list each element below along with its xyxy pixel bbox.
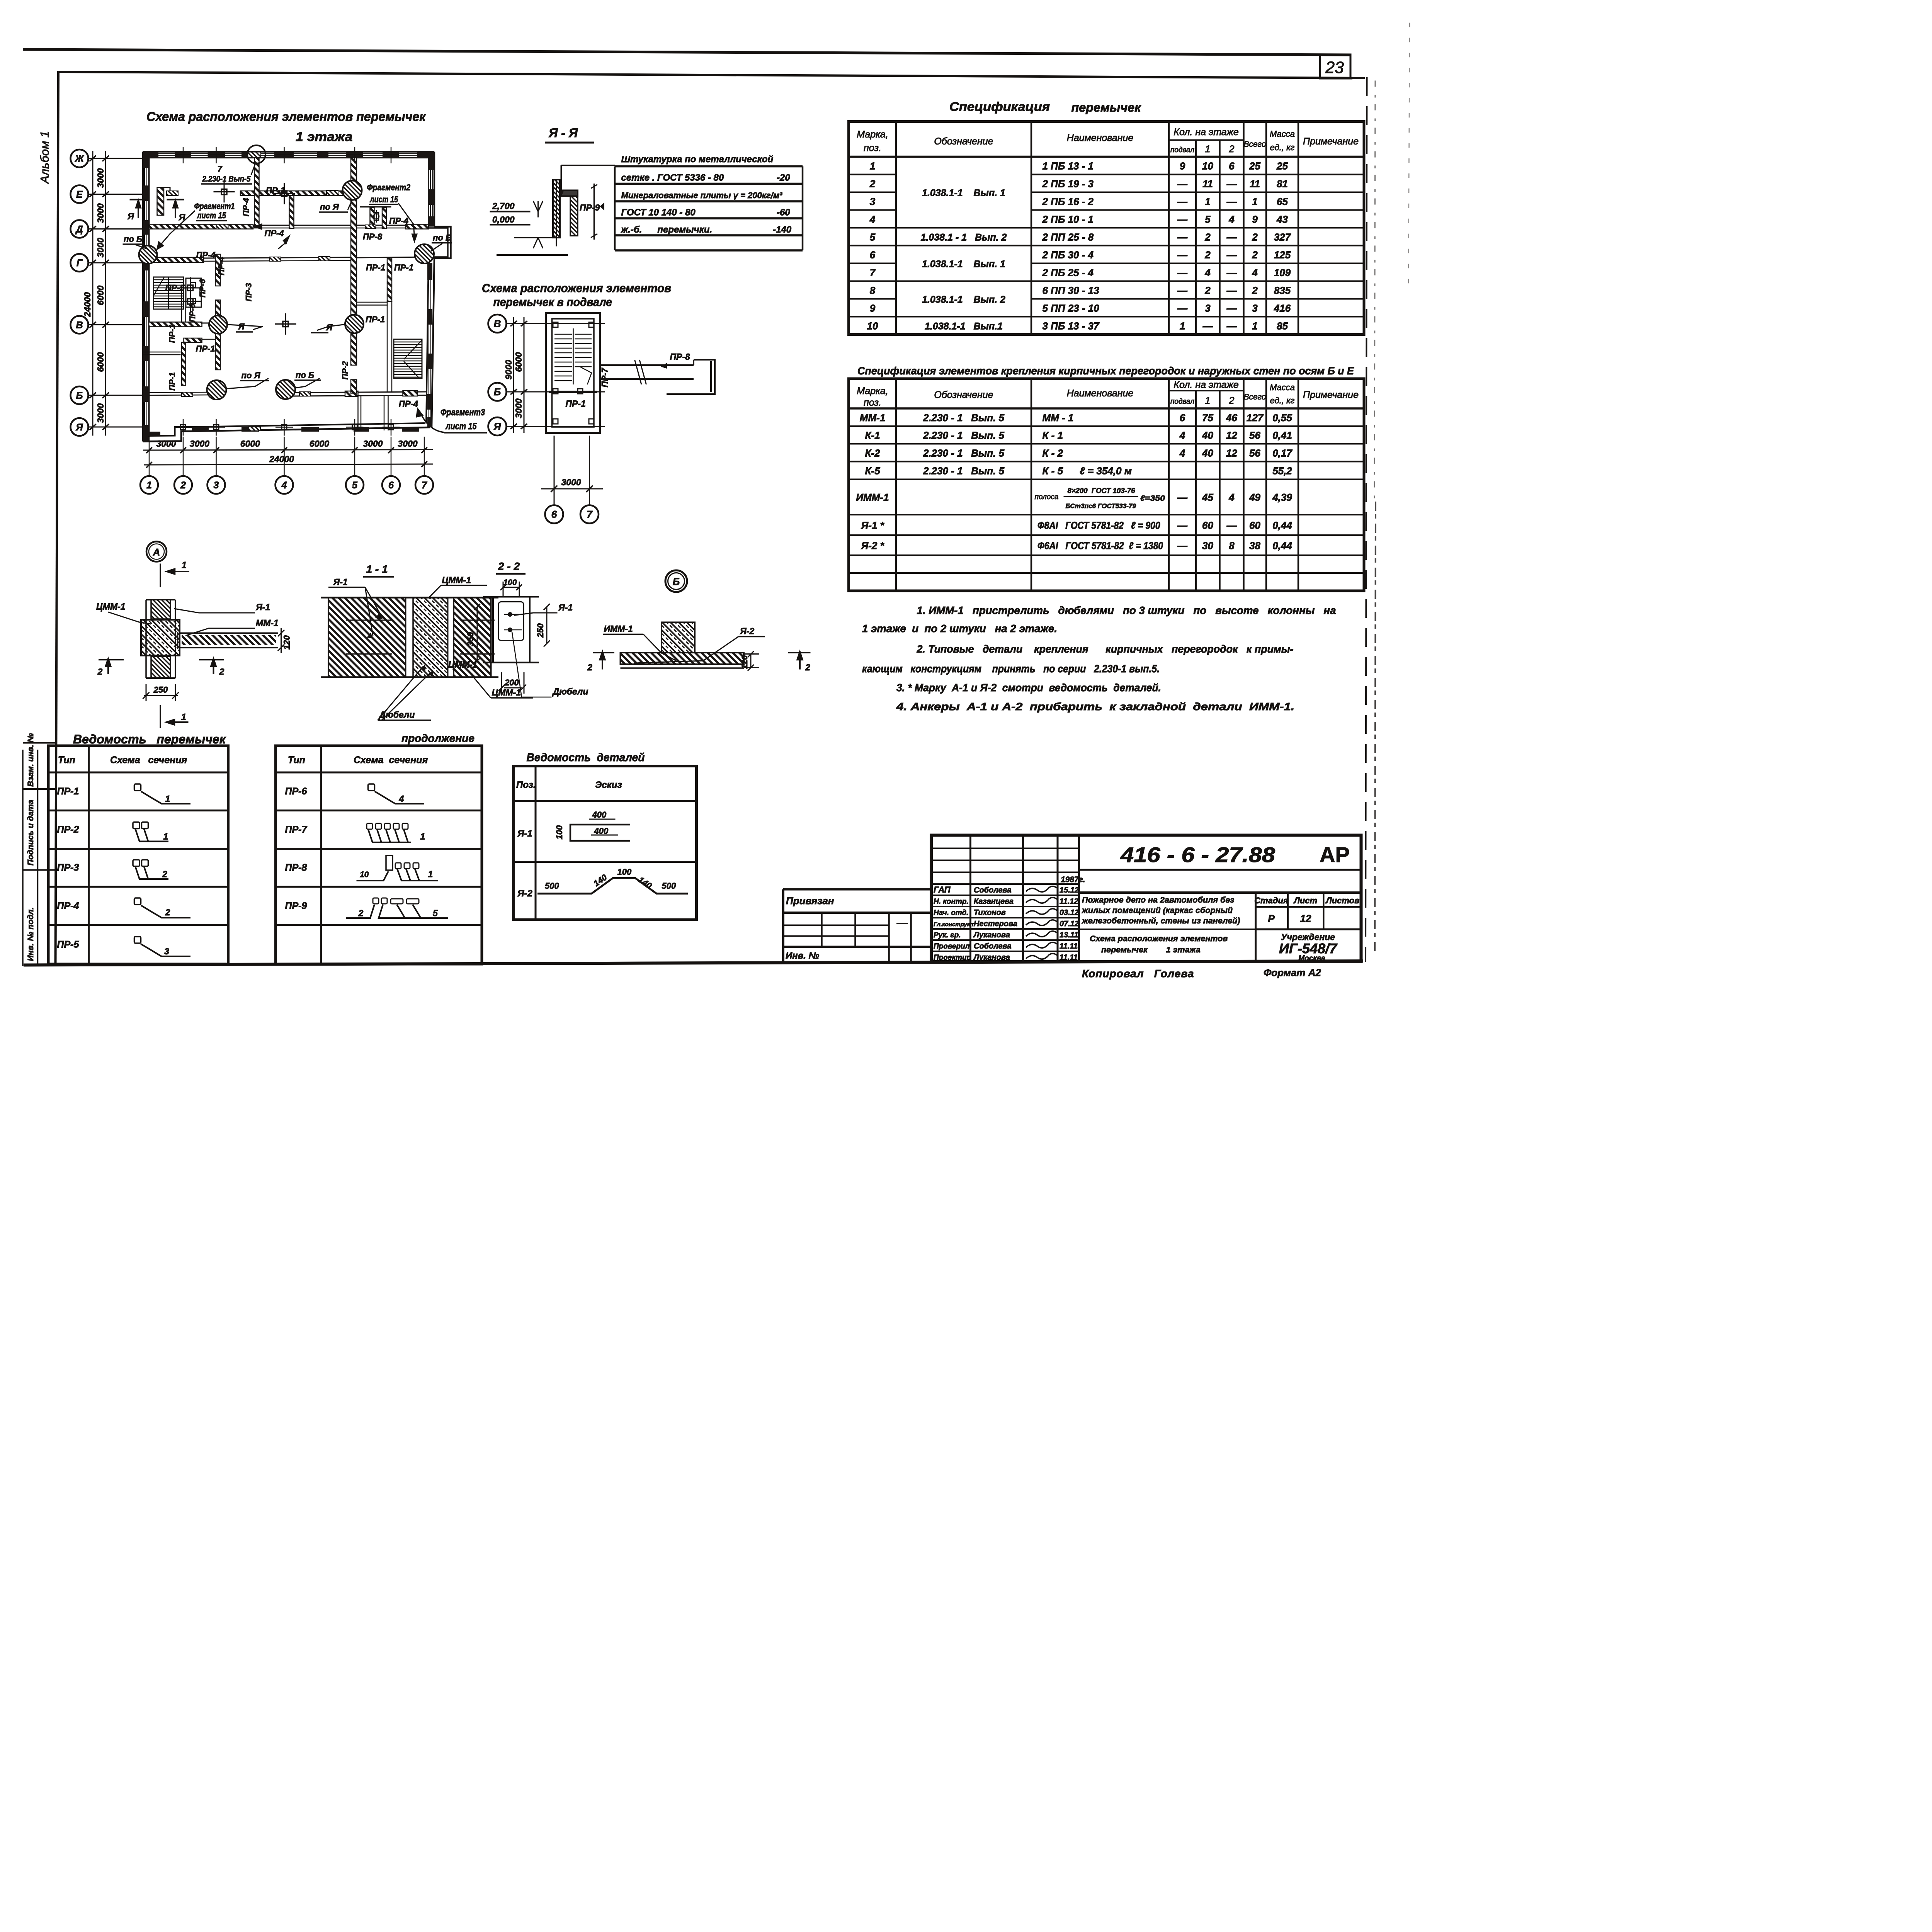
svg-text:-140: -140 bbox=[773, 224, 792, 235]
svg-text:6 ПП 30 - 13: 6 ПП 30 - 13 bbox=[1043, 285, 1100, 296]
svg-text:4,39: 4,39 bbox=[1272, 492, 1292, 503]
stage/sheet cells bbox=[1254, 896, 1359, 963]
svg-text:0,000: 0,000 bbox=[492, 214, 515, 224]
svg-text:3: 3 bbox=[1252, 303, 1258, 314]
wall V2 bbox=[289, 196, 294, 228]
svg-text:4: 4 bbox=[1228, 214, 1235, 225]
svg-text:—: — bbox=[1177, 540, 1188, 551]
spec table 1 rows bbox=[867, 160, 1291, 332]
svg-text:0,17: 0,17 bbox=[1272, 447, 1293, 459]
svg-text:2 ПБ 30 - 4: 2 ПБ 30 - 4 bbox=[1042, 249, 1094, 261]
svg-text:1: 1 bbox=[870, 160, 875, 172]
svg-text:2: 2 bbox=[1204, 249, 1211, 261]
svg-text:Обозначение: Обозначение bbox=[934, 136, 993, 147]
svg-text:ММ - 1: ММ - 1 bbox=[1043, 412, 1074, 423]
svg-text:12: 12 bbox=[1300, 913, 1311, 924]
partition left room bbox=[143, 352, 181, 355]
svg-text:30: 30 bbox=[1202, 540, 1213, 551]
left dimension lines bbox=[90, 151, 109, 436]
svg-text:45: 45 bbox=[1202, 492, 1213, 503]
svg-text:ПР-1: ПР-1 bbox=[394, 263, 413, 272]
wall corridor upper axis D left part bbox=[149, 224, 253, 229]
svg-text:—: — bbox=[1177, 196, 1188, 207]
svg-text:лист 15: лист 15 bbox=[446, 421, 477, 432]
svg-text:К - 2: К - 2 bbox=[1043, 447, 1063, 459]
svg-text:250: 250 bbox=[536, 623, 545, 638]
svg-text:3000: 3000 bbox=[95, 168, 105, 188]
svg-text:полоса: полоса bbox=[1035, 493, 1059, 501]
svg-text:11.11: 11.11 bbox=[1060, 942, 1078, 951]
section mark 1 bottom bbox=[160, 705, 189, 728]
svg-text:К-1: К-1 bbox=[865, 430, 880, 441]
wall corridor upper right part bbox=[406, 224, 429, 229]
svg-text:ПР-4: ПР-4 bbox=[57, 901, 79, 912]
svg-text:Альбом 1: Альбом 1 bbox=[38, 131, 51, 184]
node B dims bbox=[744, 651, 759, 671]
svg-text:ПР-9: ПР-9 bbox=[285, 901, 307, 912]
svg-text:К-2: К-2 bbox=[865, 447, 880, 459]
svg-text:Дюбели: Дюбели bbox=[552, 687, 588, 697]
svg-text:Луканова: Луканова bbox=[973, 931, 1010, 939]
svg-text:ПР-4: ПР-4 bbox=[399, 399, 418, 409]
svg-text:3000: 3000 bbox=[190, 439, 209, 449]
svg-text:Я-1 *: Я-1 * bbox=[861, 520, 884, 531]
svg-text:Проверил: Проверил bbox=[934, 942, 970, 951]
wall V5 PR-3 upper bbox=[216, 254, 221, 286]
svg-text:ПР-3: ПР-3 bbox=[57, 862, 79, 873]
svg-text:сетке . ГОСТ 5336 - 80: сетке . ГОСТ 5336 - 80 bbox=[621, 173, 724, 183]
svg-text:56: 56 bbox=[1249, 447, 1260, 459]
section mark 2 left bbox=[99, 658, 224, 674]
vent symbol bathroom bbox=[374, 210, 379, 223]
svg-text:Е: Е bbox=[76, 189, 83, 200]
svg-text:А: А bbox=[153, 547, 160, 558]
svg-text:46: 46 bbox=[1226, 412, 1237, 423]
left margin vertical labels bbox=[26, 733, 35, 961]
svg-text:—: — bbox=[1226, 303, 1237, 314]
svg-text:500: 500 bbox=[662, 881, 676, 891]
svg-text:К - 5 ℓ = 354,0 м: К - 5 ℓ = 354,0 м bbox=[1043, 465, 1132, 477]
svg-text:2: 2 bbox=[805, 662, 810, 672]
svg-text:12: 12 bbox=[1226, 430, 1237, 441]
svg-text:лист 15: лист 15 bbox=[197, 211, 226, 220]
svg-text:Д: Д bbox=[75, 224, 83, 235]
svg-text:40: 40 bbox=[1202, 447, 1213, 459]
bottom dimension lines bbox=[143, 437, 433, 476]
wall axis E right part bbox=[298, 191, 344, 196]
svg-text:Масса: Масса bbox=[1270, 129, 1295, 139]
svg-text:2: 2 bbox=[180, 480, 186, 491]
svg-text:Кол. на этаже: Кол. на этаже bbox=[1173, 379, 1239, 390]
svg-text:13.11: 13.11 bbox=[1060, 931, 1078, 939]
svg-text:Фрагмент2: Фрагмент2 bbox=[367, 183, 411, 192]
svg-text:ПР-1: ПР-1 bbox=[266, 185, 285, 195]
svg-text:Фрагмент3: Фрагмент3 bbox=[440, 407, 485, 418]
L partition vertical bbox=[157, 188, 164, 216]
svg-text:24000: 24000 bbox=[82, 292, 92, 317]
svg-text:1.038.1 - 1 Вып. 2: 1.038.1 - 1 Вып. 2 bbox=[921, 232, 1007, 243]
basement stair box bbox=[546, 313, 600, 433]
svg-text:6000: 6000 bbox=[240, 439, 260, 449]
vedomost peremychek left table bbox=[48, 746, 228, 964]
svg-text:0,44: 0,44 bbox=[1272, 540, 1292, 551]
svg-text:поз.: поз. bbox=[864, 397, 881, 408]
svg-text:3000: 3000 bbox=[398, 439, 417, 449]
svg-text:2 ПБ 10 - 1: 2 ПБ 10 - 1 bbox=[1042, 214, 1094, 225]
svg-text:7: 7 bbox=[587, 509, 593, 520]
svg-text:60: 60 bbox=[1249, 520, 1260, 531]
svg-text:Поз.: Поз. bbox=[516, 780, 536, 790]
svg-text:2 ПП 25 - 8: 2 ПП 25 - 8 bbox=[1042, 231, 1094, 243]
svg-text:Пожарное депо на 2автомобиля б: Пожарное депо на 2автомобиля без bbox=[1082, 895, 1234, 905]
svg-text:ММ-1: ММ-1 bbox=[256, 618, 279, 628]
svg-text:—: — bbox=[1226, 520, 1237, 531]
svg-text:Я: Я bbox=[238, 322, 245, 332]
svg-text:БСт3пс6 ГОСТ533-79: БСт3пс6 ГОСТ533-79 bbox=[1066, 502, 1136, 510]
svg-text:1: 1 bbox=[1180, 320, 1185, 332]
svg-text:2,700: 2,700 bbox=[492, 201, 515, 211]
svg-text:Я-2: Я-2 bbox=[740, 626, 754, 636]
svg-text:ПР-9: ПР-9 bbox=[580, 202, 600, 213]
svg-text:55,2: 55,2 bbox=[1272, 465, 1292, 477]
svg-text:Г: Г bbox=[77, 258, 83, 269]
svg-text:ПР-7: ПР-7 bbox=[600, 367, 610, 388]
right edge scan streak bbox=[1374, 81, 1375, 502]
svg-text:ПР-1: ПР-1 bbox=[366, 263, 385, 272]
svg-text:ПР-6: ПР-6 bbox=[198, 279, 207, 298]
stair 1 treads bbox=[154, 277, 202, 309]
svg-text:ПР-1: ПР-1 bbox=[366, 315, 385, 324]
svg-text:Наименование: Наименование bbox=[1067, 388, 1134, 399]
svg-text:Обозначение: Обозначение bbox=[934, 389, 993, 400]
svg-text:2: 2 bbox=[219, 667, 224, 677]
svg-text:Соболева: Соболева bbox=[974, 886, 1012, 895]
svg-text:—: — bbox=[1177, 249, 1188, 261]
svg-text:—: — bbox=[1226, 285, 1237, 296]
svg-text:4: 4 bbox=[1204, 267, 1211, 279]
axis B hatched block 2 bbox=[403, 391, 418, 396]
svg-text:Р: Р bbox=[1268, 913, 1275, 924]
svg-text:—: — bbox=[1226, 267, 1237, 279]
basement axis circles bbox=[488, 315, 599, 524]
svg-text:2: 2 bbox=[1204, 285, 1211, 296]
svg-text:60: 60 bbox=[1202, 520, 1213, 531]
svg-text:Марка,: Марка, bbox=[857, 129, 888, 140]
svg-text:подвал: подвал bbox=[1170, 146, 1194, 154]
svg-text:Масса: Масса bbox=[1270, 383, 1295, 392]
svg-text:продолжение: продолжение bbox=[401, 732, 474, 744]
svg-text:железобетонный, стены из панел: железобетонный, стены из панелей) bbox=[1082, 916, 1240, 925]
svg-text:—: — bbox=[1226, 249, 1237, 261]
svg-text:Схема расположения элементо: Схема расположения элементов перемычек bbox=[146, 109, 427, 124]
svg-text:6000: 6000 bbox=[310, 439, 329, 449]
column symbols bbox=[175, 147, 400, 436]
wall axis V left bbox=[149, 322, 202, 327]
svg-text:4: 4 bbox=[869, 214, 876, 225]
partition right rooms bbox=[357, 302, 388, 305]
title block outer bbox=[931, 835, 1361, 962]
svg-text:ПР-6: ПР-6 bbox=[285, 786, 308, 797]
svg-text:1 этажа: 1 этажа bbox=[296, 129, 353, 144]
svg-text:ПР-3: ПР-3 bbox=[245, 283, 253, 301]
left extension box (Privyazan) bbox=[783, 889, 931, 962]
svg-text:11.12: 11.12 bbox=[1060, 897, 1078, 906]
vedomost peremychek right table bbox=[276, 746, 482, 964]
svg-text:23: 23 bbox=[1325, 58, 1344, 77]
svg-text:Кол. на этаже: Кол. на этаже bbox=[1173, 127, 1239, 138]
svg-text:Москва: Москва bbox=[1298, 954, 1325, 963]
basement axis lines bbox=[507, 317, 605, 505]
svg-text:В: В bbox=[494, 318, 501, 330]
svg-text:4: 4 bbox=[399, 794, 404, 804]
svg-text:10: 10 bbox=[360, 870, 369, 879]
svg-text:Наименование: Наименование bbox=[1067, 133, 1134, 143]
svg-text:ПР-5: ПР-5 bbox=[57, 939, 80, 950]
notes under table 2 bbox=[862, 604, 1336, 713]
svg-text:65: 65 bbox=[1277, 196, 1288, 207]
svg-text:ПР-8: ПР-8 bbox=[285, 862, 307, 873]
svg-text:3000: 3000 bbox=[156, 439, 176, 449]
plan labels bbox=[124, 164, 452, 409]
wall V6 hatched part bbox=[182, 342, 186, 386]
svg-text:—: — bbox=[1177, 214, 1188, 225]
svg-text:2: 2 bbox=[162, 869, 167, 879]
svg-text:Спецификация элементов крепле: Спецификация элементов крепления кирпичн… bbox=[857, 365, 1354, 377]
svg-text:по Б: по Б bbox=[124, 234, 143, 244]
svg-text:—: — bbox=[1177, 285, 1188, 296]
svg-text:Я: Я bbox=[179, 212, 186, 222]
svg-text:2 ПБ 19 - 3: 2 ПБ 19 - 3 bbox=[1042, 178, 1094, 190]
svg-text:по Б: по Б bbox=[433, 233, 452, 243]
svg-text:перемычек 1 этажа: перемычек 1 этажа bbox=[1101, 945, 1201, 954]
svg-text:Схема сечения: Схема сечения bbox=[110, 755, 187, 765]
svg-text:100: 100 bbox=[554, 825, 564, 839]
svg-text:3: 3 bbox=[164, 946, 169, 956]
spec table 1 grid bbox=[849, 122, 1364, 335]
svg-text:—: — bbox=[1226, 320, 1237, 332]
svg-text:1 этаже и по 2 штуки на 2: 1 этаже и по 2 штуки на 2 этаже. bbox=[862, 622, 1057, 634]
svg-text:ММ-1: ММ-1 bbox=[860, 412, 885, 423]
axis B wall right part bbox=[292, 392, 426, 396]
svg-text:Я: Я bbox=[127, 211, 134, 221]
svg-text:2.230 - 1 Вып. 5: 2.230 - 1 Вып. 5 bbox=[923, 465, 1005, 477]
svg-text:350: 350 bbox=[466, 632, 475, 646]
PR-9 sketch bbox=[373, 898, 379, 904]
svg-text:11: 11 bbox=[1250, 178, 1260, 190]
svg-text:3: 3 bbox=[214, 480, 219, 491]
svg-text:ПР-1: ПР-1 bbox=[168, 325, 177, 343]
axis circles left bbox=[71, 150, 143, 436]
svg-text:Инв. № подл.: Инв. № подл. bbox=[26, 907, 35, 961]
svg-text:4: 4 bbox=[281, 480, 287, 491]
svg-text:ИММ-1: ИММ-1 bbox=[856, 492, 889, 503]
svg-text:—: — bbox=[1226, 231, 1237, 243]
svg-text:1.038.1-1 Вып. 2: 1.038.1-1 Вып. 2 bbox=[922, 294, 1005, 305]
svg-text:56: 56 bbox=[1249, 430, 1260, 441]
svg-text:К-5: К-5 bbox=[865, 465, 880, 477]
PR-4 sketch bbox=[134, 898, 141, 905]
svg-text:Всего: Всего bbox=[1244, 140, 1266, 149]
bathroom wall b bbox=[382, 208, 386, 229]
page number box bbox=[1320, 55, 1352, 78]
section Ya-Ya sketch bbox=[490, 180, 598, 255]
svg-text:Нестерова: Нестерова bbox=[974, 920, 1017, 928]
svg-text:81: 81 bbox=[1277, 178, 1288, 190]
svg-text:ПР-4: ПР-4 bbox=[242, 198, 251, 216]
svg-text:Я-1: Я-1 bbox=[333, 577, 348, 587]
svg-text:Лист: Лист bbox=[1293, 896, 1317, 905]
svg-text:2: 2 bbox=[97, 667, 103, 677]
svg-text:ИГ-548/7: ИГ-548/7 bbox=[1279, 940, 1338, 956]
svg-text:49: 49 bbox=[1249, 492, 1260, 503]
svg-text:ПР-4: ПР-4 bbox=[389, 216, 408, 226]
PR-6 sketch bbox=[346, 784, 448, 918]
svg-text:Копировал Голева: Копировал Голева bbox=[1082, 968, 1194, 980]
svg-text:по Я: по Я bbox=[320, 202, 339, 212]
svg-text:ГАП: ГАП bbox=[934, 885, 951, 895]
svg-text:5: 5 bbox=[1205, 214, 1211, 225]
wall V5 PR-3 lower bbox=[216, 300, 221, 370]
svg-text:2: 2 bbox=[869, 178, 876, 190]
basement duct to the right bbox=[600, 360, 715, 394]
svg-text:лист 15: лист 15 bbox=[370, 195, 398, 204]
2-2 dims bbox=[474, 582, 550, 694]
svg-text:Я: Я bbox=[493, 421, 502, 432]
svg-text:Ведомость перемычек: Ведомость перемычек bbox=[73, 732, 226, 746]
svg-text:2: 2 bbox=[1252, 249, 1258, 261]
svg-text:1: 1 bbox=[428, 869, 433, 879]
svg-text:4: 4 bbox=[1179, 447, 1185, 459]
svg-text:3000: 3000 bbox=[95, 238, 105, 257]
PR-1 sketch bbox=[133, 784, 190, 956]
finish note table bbox=[559, 165, 803, 250]
svg-text:жилых помещений (каркас сборны: жилых помещений (каркас сборный bbox=[1082, 906, 1233, 915]
svg-text:ПР-6: ПР-6 bbox=[188, 304, 197, 322]
svg-text:—: — bbox=[1202, 320, 1213, 332]
svg-text:Формат А2: Формат А2 bbox=[1264, 967, 1321, 978]
svg-text:Схема расположения элементов: Схема расположения элементов bbox=[482, 281, 671, 295]
svg-text:3: 3 bbox=[870, 196, 876, 207]
svg-text:В: В bbox=[76, 320, 83, 331]
svg-text:—: — bbox=[1177, 492, 1188, 503]
svg-text:3000: 3000 bbox=[95, 203, 105, 223]
svg-text:кающим конструкциям приня: кающим конструкциям принять по серии 2.2… bbox=[862, 663, 1160, 675]
svg-text:1: 1 bbox=[163, 832, 168, 842]
node B drawing bbox=[621, 622, 744, 668]
svg-text:9: 9 bbox=[1252, 214, 1258, 225]
svg-text:1: 1 bbox=[1205, 144, 1211, 155]
svg-text:ПР-7: ПР-7 bbox=[285, 824, 308, 835]
svg-text:1.038.1-1 Вып. 1: 1.038.1-1 Вып. 1 bbox=[922, 188, 1005, 199]
svg-text:7: 7 bbox=[218, 164, 223, 174]
svg-text:по Я: по Я bbox=[241, 371, 261, 380]
svg-text:2: 2 bbox=[1229, 395, 1235, 406]
svg-text:109: 109 bbox=[1274, 267, 1291, 279]
svg-text:ИММ-1: ИММ-1 bbox=[604, 624, 633, 634]
section 2-2 drawing bbox=[483, 597, 539, 663]
svg-text:ГОСТ 10 140 - 80: ГОСТ 10 140 - 80 bbox=[621, 207, 696, 218]
svg-text:416 - 6 - 27.88: 416 - 6 - 27.88 bbox=[1120, 843, 1276, 867]
svg-text:Я-1: Я-1 bbox=[255, 602, 270, 612]
svg-text:3000: 3000 bbox=[514, 398, 524, 418]
section marks Ya bbox=[130, 200, 184, 219]
svg-text:1 ПБ 13 - 1: 1 ПБ 13 - 1 bbox=[1043, 160, 1094, 172]
svg-text:ПР-5: ПР-5 bbox=[165, 283, 185, 293]
svg-text:8: 8 bbox=[870, 285, 876, 296]
svg-text:ПР-4: ПР-4 bbox=[217, 257, 226, 275]
svg-text:6: 6 bbox=[870, 249, 876, 261]
svg-text:0,44: 0,44 bbox=[1272, 520, 1292, 531]
svg-text:ЦММ-1: ЦММ-1 bbox=[96, 602, 126, 612]
svg-text:9000: 9000 bbox=[503, 360, 514, 379]
svg-text:Минераловатные плиты γ = 200к: Минераловатные плиты γ = 200кг/м³ bbox=[621, 190, 783, 200]
svg-text:250: 250 bbox=[153, 685, 168, 695]
svg-text:5: 5 bbox=[352, 480, 358, 491]
svg-text:АР: АР bbox=[1320, 842, 1350, 867]
svg-text:Примечание: Примечание bbox=[1303, 389, 1359, 400]
svg-text:15.12: 15.12 bbox=[1060, 886, 1079, 895]
spec table 2 rows bbox=[856, 412, 1293, 551]
svg-text:500: 500 bbox=[545, 881, 559, 891]
Ya-1 sketch bbox=[570, 819, 630, 841]
svg-text:1: 1 bbox=[182, 560, 187, 570]
svg-text:—: — bbox=[1177, 231, 1188, 243]
svg-text:Луканова: Луканова bbox=[973, 953, 1010, 962]
svg-text:ЦММ-1: ЦММ-1 bbox=[442, 575, 471, 585]
svg-text:4: 4 bbox=[1252, 267, 1258, 279]
svg-text:ПР-1: ПР-1 bbox=[566, 399, 586, 409]
svg-text:Тип: Тип bbox=[58, 755, 75, 765]
svg-text:127: 127 bbox=[1247, 412, 1264, 423]
svg-text:ПР-1: ПР-1 bbox=[196, 344, 215, 354]
svg-text:1.038.1-1 Вып. 1: 1.038.1-1 Вып. 1 bbox=[922, 259, 1005, 270]
svg-text:ℓ=350: ℓ=350 bbox=[1140, 494, 1165, 503]
svg-text:Схема сечения: Схема сечения bbox=[354, 755, 428, 765]
node B section marks 2 bbox=[593, 651, 811, 670]
svg-text:Ф8АI ГОСТ 5781-82 ℓ = 900: Ф8АI ГОСТ 5781-82 ℓ = 900 bbox=[1037, 520, 1160, 531]
svg-text:25: 25 bbox=[1276, 160, 1288, 172]
svg-text:Эскиз: Эскиз bbox=[595, 780, 622, 790]
svg-text:—: — bbox=[1177, 303, 1188, 314]
svg-text:ПР-4: ПР-4 bbox=[265, 228, 284, 238]
PR-5 sketch bbox=[134, 937, 141, 943]
svg-text:7: 7 bbox=[870, 267, 876, 279]
svg-text:6: 6 bbox=[551, 509, 557, 520]
svg-text:10: 10 bbox=[1202, 160, 1213, 172]
svg-text:75: 75 bbox=[1202, 412, 1213, 423]
svg-text:5 ПП 23 - 10: 5 ПП 23 - 10 bbox=[1043, 303, 1100, 314]
svg-text:100: 100 bbox=[617, 867, 632, 877]
spec table 2 grid bbox=[849, 379, 1364, 591]
partition annex bbox=[358, 396, 361, 431]
spec table 1 header text bbox=[857, 127, 1359, 155]
svg-text:3000: 3000 bbox=[363, 439, 383, 449]
svg-text:Примечание: Примечание bbox=[1303, 136, 1359, 147]
stair 2 treads bbox=[394, 339, 422, 378]
window lines top wall bbox=[145, 154, 433, 425]
section 1-1 drawing bbox=[321, 598, 498, 677]
svg-text:Проектир: Проектир bbox=[934, 954, 971, 962]
svg-text:6: 6 bbox=[388, 480, 394, 491]
svg-text:—: — bbox=[1177, 178, 1188, 190]
svg-text:Нач. отд.: Нач. отд. bbox=[934, 909, 968, 917]
svg-text:Я-2 *: Я-2 * bbox=[861, 540, 884, 551]
bottom axis circles bbox=[140, 476, 433, 494]
svg-text:Схема расположения элементов: Схема расположения элементов bbox=[1090, 934, 1228, 943]
svg-text:1. ИММ-1 пристрелить дюбел: 1. ИММ-1 пристрелить дюбелями по 3 штуки… bbox=[917, 604, 1336, 616]
svg-text:2.230 - 1 Вып. 5: 2.230 - 1 Вып. 5 bbox=[923, 412, 1005, 423]
svg-text:Подпись и дата: Подпись и дата bbox=[26, 799, 35, 866]
